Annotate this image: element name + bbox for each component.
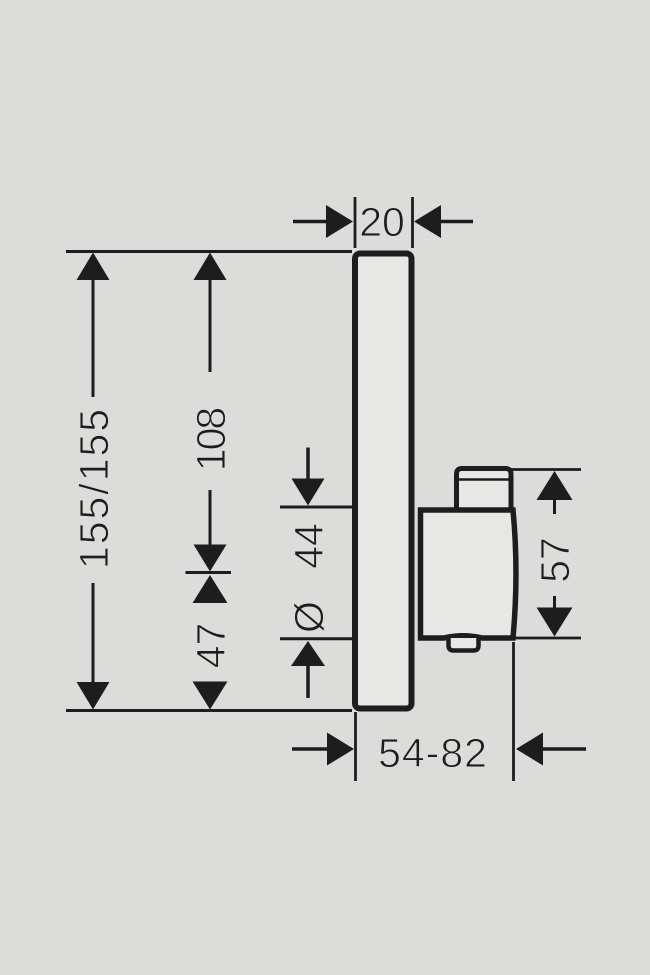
dim 155/155 top arrow (77, 253, 110, 398)
tick bottom (44) (280, 637, 352, 640)
dim 44 bottom arrow (291, 641, 325, 698)
svg-text:57: 57 (532, 537, 578, 583)
extension line 54-82 right (512, 642, 515, 781)
dim 155/155 bottom arrow (77, 583, 110, 710)
svg-text:108: 108 (188, 408, 234, 472)
dim 108 bottom arrow (194, 490, 227, 572)
horizontal extension line bottom (155/155) (66, 709, 352, 712)
dim 44 top arrow (292, 448, 325, 506)
dim 20 left arrow (293, 205, 353, 238)
dim 108 top arrow (194, 253, 227, 373)
extension line 57 top (509, 468, 581, 471)
tick between 108 and 47 (186, 571, 232, 574)
dim 57 bottom arrow (537, 596, 573, 637)
tick top (44) (280, 506, 352, 509)
top extension line right (dim 20) (411, 197, 414, 248)
svg-text:47: 47 (188, 623, 234, 669)
dim 20 right arrow (414, 205, 473, 238)
handle bottom tab (449, 638, 479, 651)
svg-text:155/155: 155/155 (71, 407, 117, 569)
handle body (421, 510, 516, 638)
extension line 57 bottom (514, 637, 581, 640)
extension line 54-82 left (354, 712, 357, 781)
dim 54-82 right arrow (516, 733, 586, 766)
dim 47 bottom arrow (193, 682, 228, 710)
dim 54-82 left arrow (292, 733, 354, 766)
svg-text:54-82: 54-82 (378, 730, 488, 776)
top extension line left (dim 20) (354, 197, 357, 248)
knob inner line (457, 478, 510, 481)
dim 57 top arrow (537, 471, 573, 514)
svg-text:44: 44 (286, 523, 332, 569)
svg-text:20: 20 (359, 199, 405, 245)
horizontal extension line top (155/155) (66, 250, 352, 253)
handle knob (top small block) (457, 469, 512, 516)
plate (wall plate, side view) (355, 254, 412, 709)
svg-text:Ø: Ø (286, 601, 332, 633)
dim 47 top arrow (193, 575, 228, 603)
